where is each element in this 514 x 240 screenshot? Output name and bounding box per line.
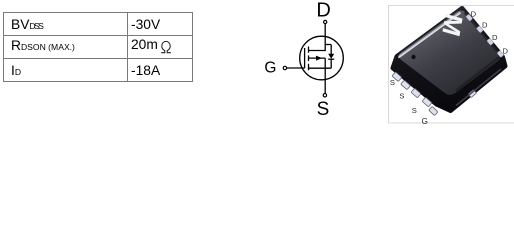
svg-text:G: G	[422, 117, 428, 126]
svg-text:S: S	[390, 78, 395, 87]
svg-text:G: G	[264, 60, 276, 77]
svg-text:S: S	[412, 106, 417, 115]
svg-text:D: D	[471, 9, 477, 18]
svg-text:D: D	[482, 20, 488, 29]
svg-text:S: S	[317, 99, 330, 120]
svg-text:D: D	[492, 33, 498, 42]
svg-text:S: S	[399, 92, 404, 101]
svg-text:D: D	[503, 47, 509, 56]
svg-text:D: D	[316, 0, 330, 22]
